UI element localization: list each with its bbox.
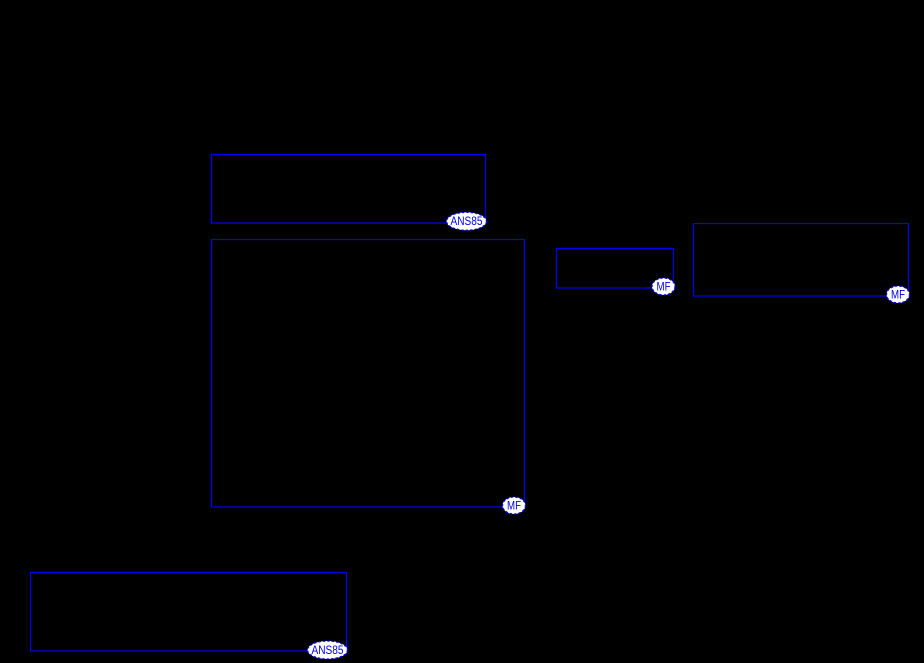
flag ellipse ANS85 on box B5 [308, 641, 348, 659]
dialect box B1 (top, ANS85) [212, 155, 486, 224]
flag ellipse ANS85 on box B1 [447, 212, 487, 230]
flag ellipse MF on box B3 [652, 278, 675, 295]
flag ellipse MF on box B2 [503, 497, 526, 514]
flag ellipse MF on box B4 [887, 286, 910, 303]
dialect box B5 (bottom left, ANS85) [31, 573, 347, 652]
svg-text:MF: MF [891, 290, 905, 302]
svg-text:ANS85: ANS85 [312, 645, 344, 657]
svg-text:MF: MF [507, 501, 521, 513]
svg-text:ANS85: ANS85 [451, 216, 483, 228]
dialect box B2 (large center, MF) [212, 240, 525, 508]
dialect box B3 (small, MF) [557, 249, 674, 289]
svg-text:MF: MF [657, 282, 671, 294]
dialect box B4 (right, MF) [694, 224, 909, 297]
